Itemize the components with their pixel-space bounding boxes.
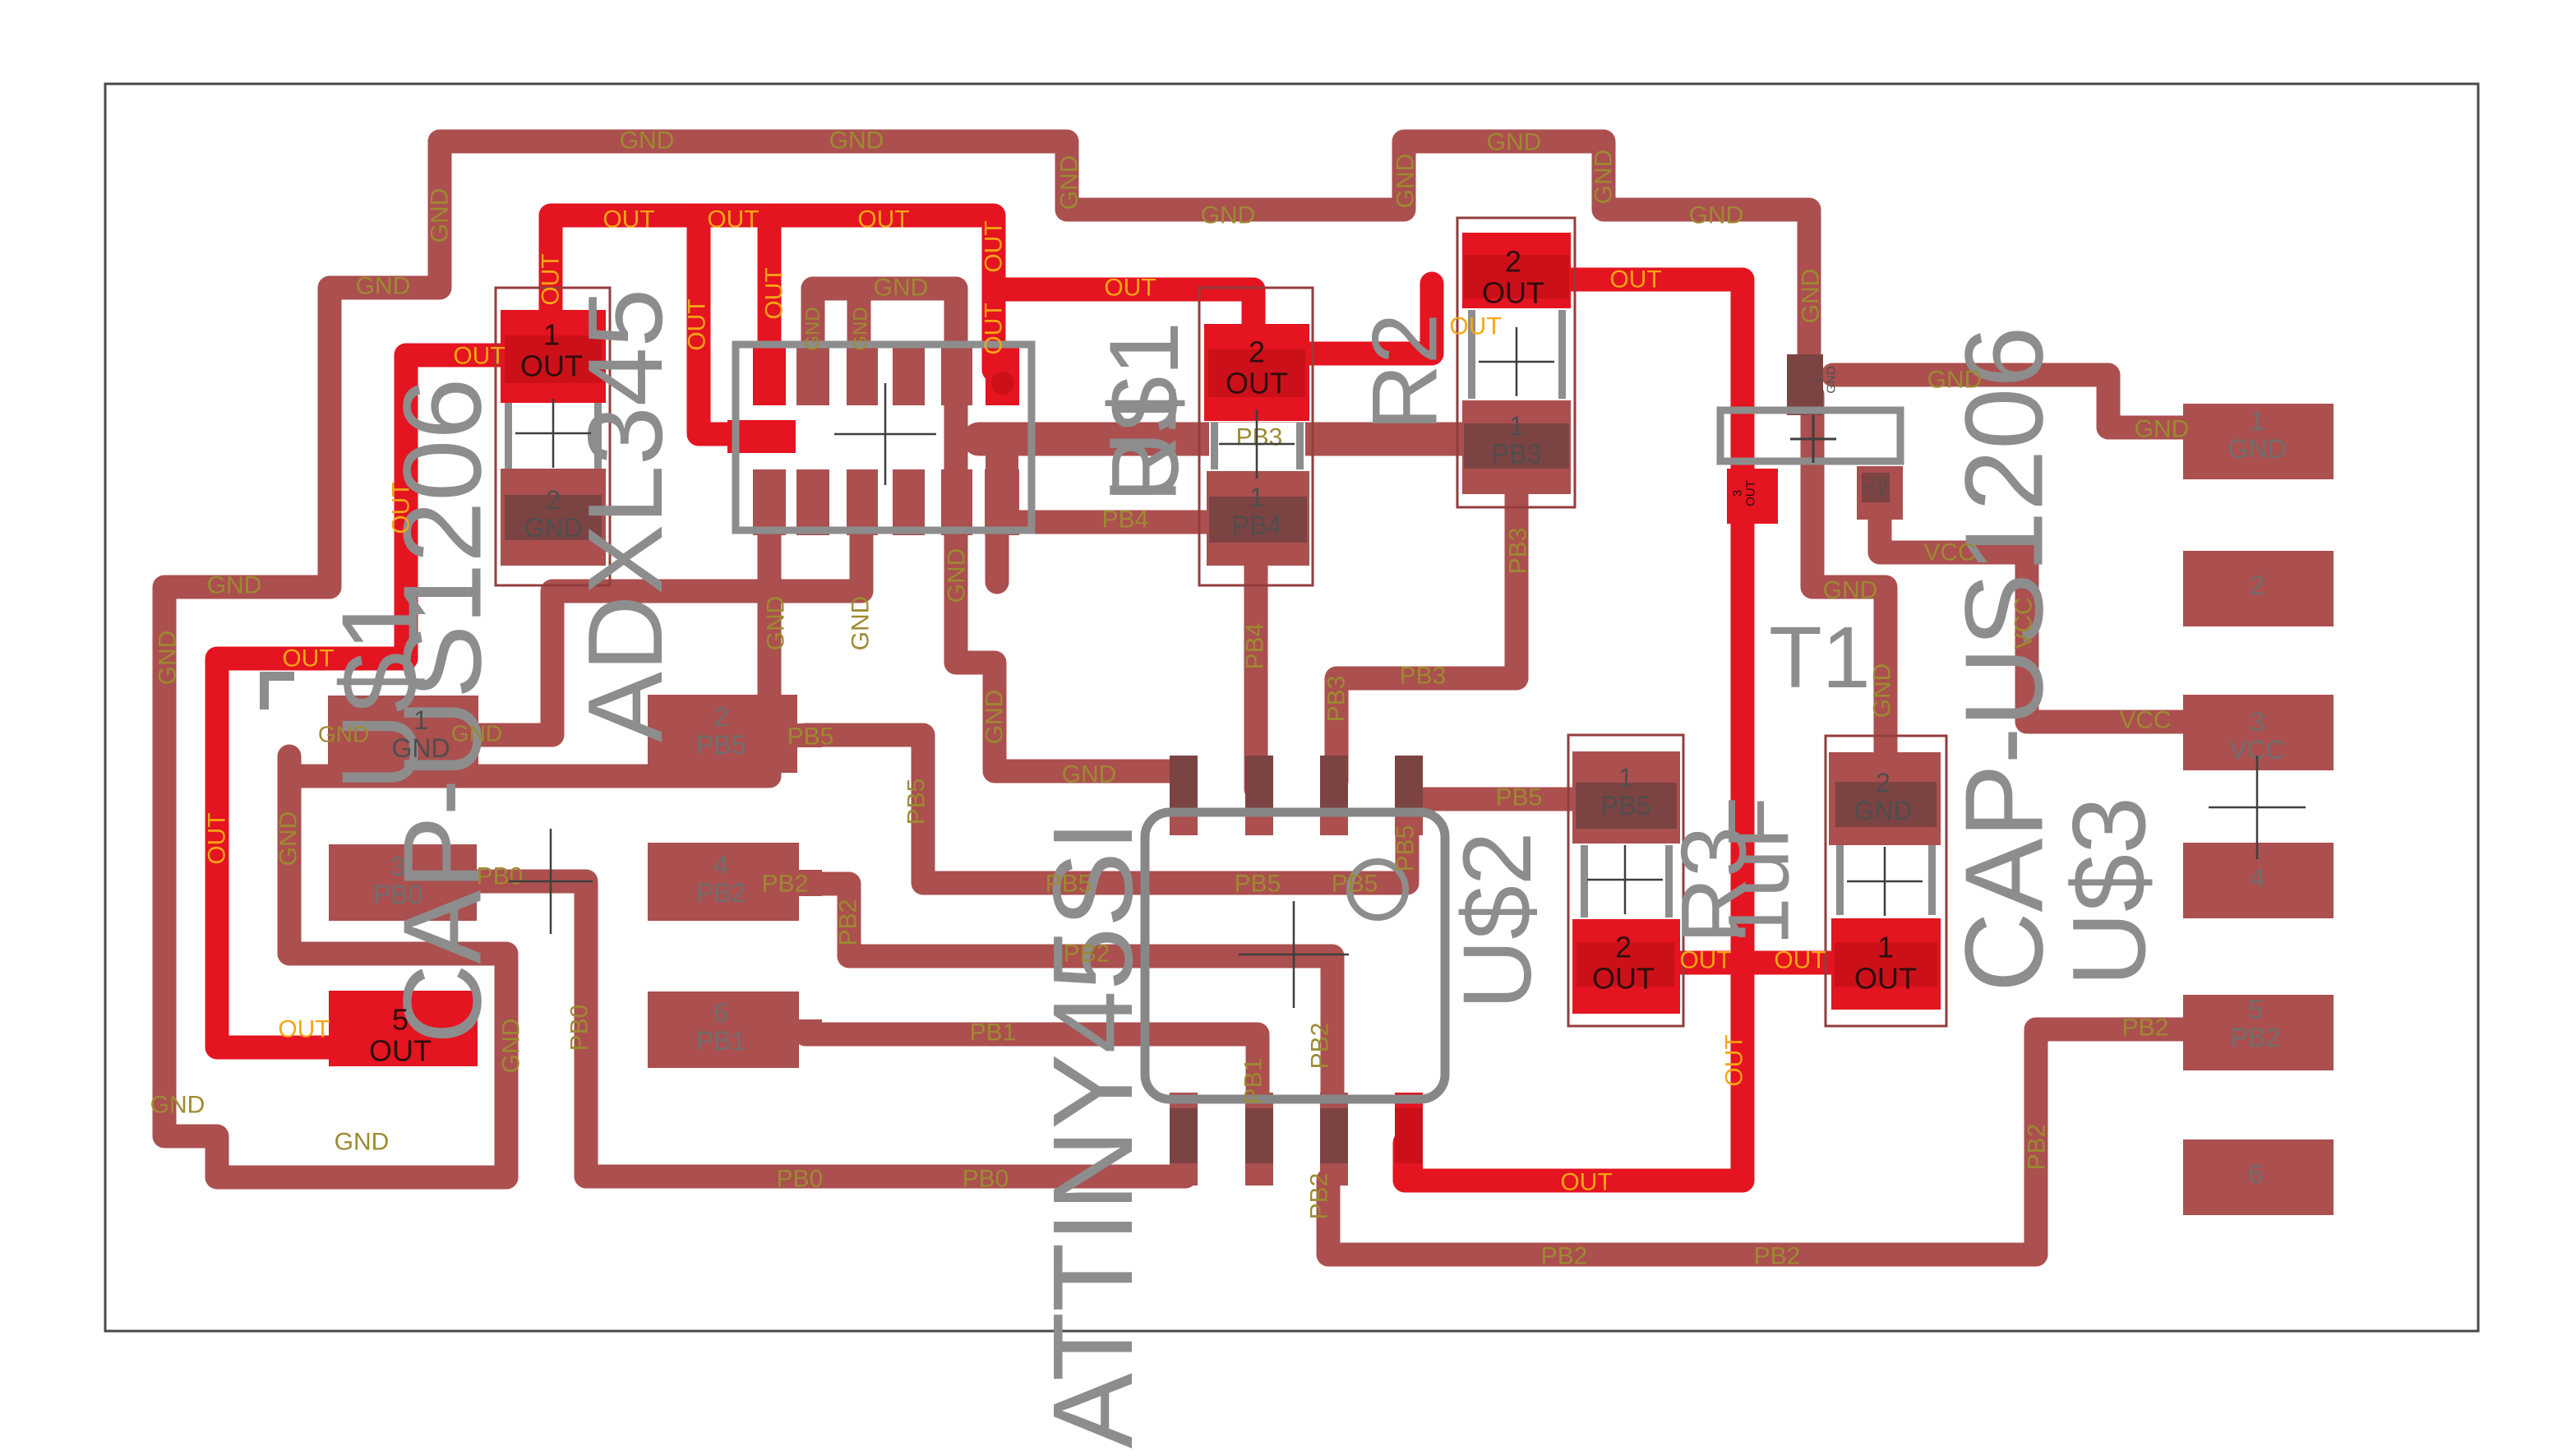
svg-text:GND: GND xyxy=(874,275,929,302)
svg-text:PB2: PB2 xyxy=(1307,1023,1334,1070)
svg-text:PB3: PB3 xyxy=(1323,676,1350,723)
svg-text:CAP-US1206: CAP-US1206 xyxy=(1942,326,2066,992)
svg-text:PB4: PB4 xyxy=(1102,506,1149,534)
svg-text:OUT: OUT xyxy=(1104,275,1156,302)
svg-text:VCC: VCC xyxy=(2119,707,2171,734)
svg-text:GND: GND xyxy=(1854,796,1912,825)
svg-text:GND: GND xyxy=(1825,366,1839,394)
svg-text:5: 5 xyxy=(2248,995,2263,1024)
svg-text:OUT: OUT xyxy=(1560,1169,1612,1196)
svg-text:4: 4 xyxy=(713,850,728,880)
svg-text:PB2: PB2 xyxy=(2231,1023,2280,1052)
svg-text:GND: GND xyxy=(802,307,824,350)
svg-text:3: 3 xyxy=(1731,490,1745,497)
svg-text:PB5: PB5 xyxy=(903,779,930,825)
svg-text:1: 1 xyxy=(1509,411,1524,441)
svg-text:PB3: PB3 xyxy=(1492,439,1541,469)
svg-text:PB5: PB5 xyxy=(1601,791,1650,820)
svg-text:PB2: PB2 xyxy=(1064,941,1110,968)
svg-text:1: 1 xyxy=(413,705,428,735)
svg-text:OUT: OUT xyxy=(369,1034,432,1068)
svg-text:vcc: vcc xyxy=(1876,477,1890,496)
svg-text:PB5: PB5 xyxy=(1332,871,1378,898)
svg-text:GND: GND xyxy=(318,722,369,747)
svg-text:PB3: PB3 xyxy=(1236,424,1283,451)
svg-text:OUT: OUT xyxy=(1226,367,1288,400)
svg-text:GND: GND xyxy=(150,1092,205,1119)
svg-text:OUT: OUT xyxy=(602,206,654,233)
svg-text:OUT: OUT xyxy=(1609,266,1661,294)
svg-text:3: 3 xyxy=(390,852,405,881)
svg-text:PB3: PB3 xyxy=(1400,663,1447,690)
svg-text:2: 2 xyxy=(1505,245,1521,279)
svg-text:PB2: PB2 xyxy=(696,878,746,908)
svg-text:OUT: OUT xyxy=(1721,1034,1748,1086)
svg-text:GND: GND xyxy=(451,721,502,746)
svg-text:GND: GND xyxy=(620,127,675,155)
svg-text:PB5: PB5 xyxy=(696,730,746,760)
svg-text:OUT: OUT xyxy=(1744,480,1758,506)
svg-text:4: 4 xyxy=(2250,863,2264,893)
svg-text:PB0: PB0 xyxy=(777,1166,824,1193)
svg-text:PB1: PB1 xyxy=(970,1019,1017,1047)
svg-text:1: 1 xyxy=(1618,763,1633,793)
svg-text:OUT: OUT xyxy=(981,303,1008,354)
svg-text:GND: GND xyxy=(1487,129,1542,156)
svg-text:5: 5 xyxy=(392,1003,409,1037)
svg-text:GND: GND xyxy=(498,1019,525,1074)
svg-text:OUT: OUT xyxy=(520,349,583,383)
svg-text:2: 2 xyxy=(1615,931,1632,964)
svg-text:2: 2 xyxy=(713,702,728,732)
svg-text:OUT: OUT xyxy=(684,298,711,350)
svg-text:PB2: PB2 xyxy=(2024,1124,2051,1171)
svg-text:PB2: PB2 xyxy=(762,871,809,898)
svg-text:GND: GND xyxy=(763,596,790,651)
svg-text:1: 1 xyxy=(1249,483,1264,512)
svg-text:GND: GND xyxy=(335,1129,390,1156)
svg-text:PB4: PB4 xyxy=(1232,511,1281,540)
svg-text:U$2: U$2 xyxy=(1443,832,1552,1010)
svg-text:2: 2 xyxy=(1249,335,1265,369)
svg-text:OUT: OUT xyxy=(857,206,909,233)
svg-text:GND: GND xyxy=(155,631,182,686)
svg-text:GND: GND xyxy=(944,548,971,603)
svg-text:2: 2 xyxy=(1863,483,1877,490)
svg-text:GND: GND xyxy=(1869,663,1896,719)
svg-text:2: 2 xyxy=(546,485,561,515)
svg-text:OUT: OUT xyxy=(388,482,415,534)
svg-text:OUT: OUT xyxy=(1854,962,1917,996)
svg-text:GND: GND xyxy=(2227,434,2286,464)
svg-text:OUT: OUT xyxy=(538,253,565,305)
svg-text:PB4: PB4 xyxy=(1242,623,1269,670)
svg-text:2: 2 xyxy=(2250,571,2264,600)
svg-text:PB1: PB1 xyxy=(1240,1058,1267,1105)
svg-text:PB5: PB5 xyxy=(1235,871,1281,898)
svg-text:1: 1 xyxy=(1877,931,1894,964)
svg-text:GND: GND xyxy=(1823,577,1878,604)
svg-text:PB5: PB5 xyxy=(1046,871,1092,898)
svg-text:GND: GND xyxy=(391,733,450,763)
svg-text:ATTINY45SI: ATTINY45SI xyxy=(1030,820,1156,1449)
svg-text:6: 6 xyxy=(2248,1159,2263,1189)
svg-text:PB0: PB0 xyxy=(963,1166,1009,1193)
svg-text:GND: GND xyxy=(847,596,875,651)
svg-text:GND: GND xyxy=(1201,202,1256,229)
svg-text:6: 6 xyxy=(713,998,728,1028)
svg-text:U$3: U$3 xyxy=(2052,797,2167,987)
svg-text:GND: GND xyxy=(524,513,582,543)
svg-text:2: 2 xyxy=(1876,768,1890,797)
svg-text:OUT: OUT xyxy=(1449,313,1501,340)
svg-text:OUT: OUT xyxy=(204,812,231,864)
svg-text:PB0: PB0 xyxy=(477,863,524,890)
svg-text:ADXL345: ADXL345 xyxy=(566,289,685,742)
svg-text:OUT: OUT xyxy=(1679,947,1731,974)
svg-text:PB5: PB5 xyxy=(787,723,834,751)
svg-text:OUT: OUT xyxy=(1592,962,1655,996)
svg-text:OUT: OUT xyxy=(1774,947,1826,974)
svg-text:OUT: OUT xyxy=(761,267,788,319)
svg-text:OUT: OUT xyxy=(278,1016,330,1043)
svg-text:OUT: OUT xyxy=(981,220,1008,272)
svg-text:PB3: PB3 xyxy=(1505,528,1532,575)
svg-text:GND: GND xyxy=(1689,202,1744,229)
svg-text:GND: GND xyxy=(1590,150,1618,205)
svg-text:PB1: PB1 xyxy=(696,1026,746,1056)
svg-text:OUT: OUT xyxy=(453,343,505,370)
svg-text:1uF: 1uF xyxy=(1711,797,1807,945)
svg-text:GND: GND xyxy=(850,307,872,350)
svg-text:PB2: PB2 xyxy=(2122,1015,2169,1042)
svg-text:GND: GND xyxy=(275,811,302,867)
svg-text:PB5: PB5 xyxy=(1392,825,1420,872)
svg-text:OUT: OUT xyxy=(1482,276,1544,310)
svg-text:GND: GND xyxy=(1798,269,1825,324)
svg-text:1: 1 xyxy=(543,318,560,352)
svg-text:PB2: PB2 xyxy=(1306,1173,1333,1220)
svg-text:GND: GND xyxy=(1056,155,1083,210)
svg-text:GND: GND xyxy=(981,690,1009,745)
svg-text:R2: R2 xyxy=(1354,313,1457,431)
svg-text:GND: GND xyxy=(1062,761,1117,788)
svg-text:PB5: PB5 xyxy=(1496,784,1543,811)
svg-text:GND: GND xyxy=(427,188,454,243)
svg-text:PB2: PB2 xyxy=(1754,1243,1801,1270)
svg-text:PB2: PB2 xyxy=(835,899,862,946)
svg-text:GND: GND xyxy=(1392,154,1420,209)
svg-text:VCC: VCC xyxy=(2010,597,2038,649)
svg-text:1: 1 xyxy=(1812,377,1826,383)
svg-text:PB0: PB0 xyxy=(566,1005,593,1052)
svg-text:PB0: PB0 xyxy=(373,880,422,909)
svg-text:OUT: OUT xyxy=(282,645,334,673)
svg-text:U$1: U$1 xyxy=(1089,321,1199,502)
svg-text:GND: GND xyxy=(356,273,411,300)
svg-text:3: 3 xyxy=(2250,707,2264,737)
svg-text:T1: T1 xyxy=(1769,609,1871,706)
svg-text:OUT: OUT xyxy=(707,206,759,233)
svg-text:PB2: PB2 xyxy=(1541,1243,1588,1270)
svg-text:GND: GND xyxy=(1927,367,1983,394)
svg-text:1: 1 xyxy=(2250,406,2264,436)
svg-text:GND: GND xyxy=(2135,416,2190,443)
svg-text:GND: GND xyxy=(207,572,262,599)
svg-text:VCC: VCC xyxy=(1923,539,1975,566)
svg-text:GND: GND xyxy=(829,127,884,155)
